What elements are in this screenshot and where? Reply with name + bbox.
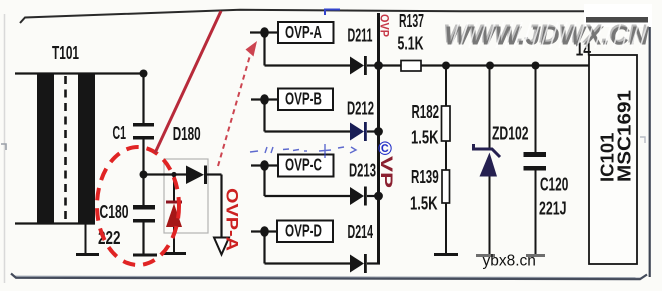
frame right border (649, 12, 651, 277)
svg-text:C180: C180 (100, 201, 129, 222)
ground G6 (526, 254, 545, 257)
node A junction (260, 27, 269, 38)
svg-text:MSC1691: MSC1691 (615, 90, 635, 182)
node B junction (260, 94, 269, 105)
wire D211 to bus (367, 64, 380, 66)
ground G1 (76, 253, 99, 256)
wire D180 cathode to corner (207, 173, 222, 175)
wire A row (265, 64, 352, 66)
wire R137 to IC (421, 64, 589, 66)
wire down to C120 (535, 66, 537, 153)
diode D180 (186, 166, 207, 185)
wire down to red diode (173, 175, 175, 203)
small gray mark right of IC (640, 137, 645, 143)
node C junction (260, 160, 269, 171)
svg-text:VP: VP (377, 156, 396, 188)
capacitor C120 (524, 152, 547, 171)
svg-text:T101: T101 (52, 42, 79, 63)
svg-text:C1: C1 (113, 122, 127, 143)
gray detail box (164, 159, 208, 233)
node C120 tap (532, 62, 540, 70)
svg-text:1.5K: 1.5K (410, 193, 438, 214)
red highlight ellipse (97, 147, 179, 265)
svg-text:D212: D212 (347, 98, 374, 119)
svg-text:5.1K: 5.1K (398, 33, 424, 54)
wire B row (265, 130, 352, 132)
node red diode tap (171, 172, 176, 177)
red annotation line (155, 11, 221, 153)
diode D211 (350, 56, 367, 75)
svg-text:D211: D211 (348, 25, 373, 46)
wire ZD102 to bottom (489, 177, 491, 255)
op-amp IC101 box (589, 55, 637, 264)
ground G4 (434, 253, 458, 256)
OVP-B block (278, 89, 333, 111)
frame top border (20, 10, 646, 23)
ground G5 (476, 254, 495, 257)
node junction at top of C1 (140, 70, 148, 78)
wire from C1 rail to D180 (144, 173, 187, 175)
OVP-C block (278, 155, 334, 177)
watermark background patch (584, 4, 652, 27)
transformer T101 core dashed line (64, 76, 67, 223)
svg-text:ybx8.cn: ybx8.cn (483, 253, 536, 270)
wire stub A (250, 31, 278, 33)
diode D212 (blue tinted) (350, 122, 367, 141)
watermark WWW.JDWX.CN (443, 19, 650, 51)
wire down to ZD102 (489, 66, 491, 150)
svg-text:OVP-D: OVP-D (285, 221, 322, 241)
svg-text:ZD102: ZD102 (492, 123, 529, 144)
capacitor C1 (133, 123, 154, 140)
capacitor C180 (133, 205, 155, 223)
wire D213 to bus (367, 195, 380, 197)
wire D row (265, 262, 352, 264)
wire transformer top lead (15, 72, 144, 74)
wire stub B (251, 98, 278, 100)
svg-text:D180: D180 (173, 123, 201, 144)
svg-text:R137: R137 (399, 10, 424, 31)
ground G3 (163, 252, 186, 255)
wire vertical C1/C180 rail (142, 74, 144, 124)
wire transformer bottom lead (15, 222, 95, 224)
svg-text:C120: C120 (540, 174, 568, 195)
node ZD102 tap (486, 62, 494, 70)
wire stub D (251, 230, 277, 232)
wire R182 to R139 (445, 141, 447, 170)
wire D212 to bus (367, 130, 380, 132)
svg-text:221J: 221J (539, 198, 567, 219)
svg-text:D213: D213 (349, 160, 376, 181)
wire C row (265, 195, 352, 197)
wire down to R182 (445, 66, 447, 107)
wire bus to R137 (380, 64, 401, 66)
wire OVP bus vertical (377, 13, 380, 264)
svg-text:OVP: OVP (378, 14, 392, 37)
transformer T101 primary bar (37, 74, 54, 224)
wire C120 to bottom (535, 171, 537, 255)
diode D213 (350, 187, 367, 206)
small gray mark left edge (1, 144, 6, 150)
faint left screen edge (4, 14, 6, 283)
wire stub C (251, 164, 278, 166)
node bus-B (374, 127, 383, 136)
frame bottom border (11, 274, 647, 280)
OVP-D block (277, 221, 333, 243)
transformer T101 secondary bar (78, 74, 95, 224)
ground G2 (133, 254, 157, 257)
blue annotation bracket above OVP-A (325, 10, 340, 16)
wire D214 to bus (367, 262, 380, 264)
watermark overline bar (586, 17, 648, 23)
svg-text:D214: D214 (348, 221, 374, 242)
wire R139 to ground (445, 203, 447, 254)
node D junction (260, 226, 269, 237)
svg-text:OVP-A: OVP-A (223, 188, 242, 251)
wire A down (263, 33, 265, 66)
node junction D180 tap (140, 171, 148, 179)
node bus-C (374, 192, 383, 201)
svg-text:OVP-B: OVP-B (285, 89, 322, 109)
svg-text:R182: R182 (412, 101, 440, 122)
node R182 tap (442, 62, 450, 70)
svg-text:R139: R139 (411, 166, 439, 187)
resistor R182 body (442, 106, 451, 141)
wire D down (263, 232, 265, 264)
svg-text:1.5K: 1.5K (411, 127, 439, 148)
resistor R139 body (442, 170, 450, 203)
red protection diode (166, 201, 182, 228)
wire C down (263, 166, 265, 197)
OVP-A output open arrow (214, 238, 229, 255)
OVP-A block (278, 22, 334, 43)
node bus-A (374, 61, 383, 70)
wire down to OVP-A arrow (220, 175, 222, 238)
wire ground stub of secondary (85, 223, 87, 254)
zener ZD102 (474, 144, 501, 177)
wire B down (263, 100, 265, 132)
diode D214 (350, 254, 367, 273)
red dashed arrow to OVP-A node (218, 41, 257, 166)
svg-text:OVP-A: OVP-A (285, 22, 322, 42)
svg-text:OVP-C: OVP-C (285, 155, 322, 175)
resistor R137 body (401, 61, 421, 72)
blue scribbles near OVP-C (250, 144, 356, 158)
wire red diode to ground (173, 227, 175, 253)
